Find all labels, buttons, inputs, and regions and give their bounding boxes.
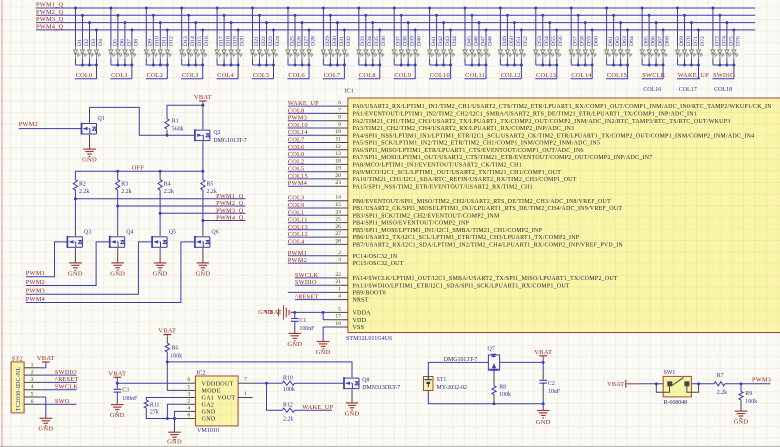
svg-text:R11: R11 xyxy=(150,402,160,408)
svg-text:PWM3: PWM3 xyxy=(288,115,307,122)
svg-text:MODE: MODE xyxy=(202,389,221,395)
svg-text:PA13/SWDIO/LPTIM1_ETR/I2C1_SDA: PA13/SWDIO/LPTIM1_ETR/I2C1_SDA/SPI1_SCK/… xyxy=(353,283,570,289)
svg-text:PA8/MCO/LPTIM1_IN1/EVENTOUT/US: PA8/MCO/LPTIM1_IN1/EVENTOUT/USART2_CK/TI… xyxy=(353,163,522,169)
svg-text:12: 12 xyxy=(335,144,341,150)
svg-text:R9: R9 xyxy=(745,391,752,397)
svg-text:R2: R2 xyxy=(79,182,86,188)
svg-text:D52: D52 xyxy=(523,36,529,46)
svg-text:GND: GND xyxy=(287,341,302,348)
svg-text:3: 3 xyxy=(31,377,34,383)
svg-text:D40: D40 xyxy=(417,36,423,46)
svg-text:9: 9 xyxy=(338,122,341,128)
svg-text:VOUT: VOUT xyxy=(217,396,235,402)
svg-text:4: 4 xyxy=(338,294,341,300)
svg-text:17: 17 xyxy=(335,314,341,320)
svg-text:14: 14 xyxy=(335,195,341,201)
svg-text:DOUT: DOUT xyxy=(216,381,234,387)
svg-text:Q7: Q7 xyxy=(488,346,495,352)
svg-text:D16: D16 xyxy=(204,36,210,46)
svg-text:R7: R7 xyxy=(717,373,724,379)
svg-text:PB6/USART2_TX/I2C1_SCL/LPTIM1_: PB6/USART2_TX/I2C1_SCL/LPTIM1_ETR/TIM2_C… xyxy=(353,235,580,241)
svg-text:2.2k: 2.2k xyxy=(283,417,293,423)
svg-text:COL5: COL5 xyxy=(288,166,305,173)
svg-text:1: 1 xyxy=(31,362,34,368)
svg-text:PWM1_Q: PWM1_Q xyxy=(36,2,64,9)
svg-text:1: 1 xyxy=(338,286,341,292)
svg-text:WAKE_UP: WAKE_UP xyxy=(288,100,319,107)
svg-text:SWDIO: SWDIO xyxy=(55,369,77,376)
svg-text:COL1: COL1 xyxy=(288,209,305,216)
svg-text:VDDA: VDDA xyxy=(353,311,372,317)
svg-text:24: 24 xyxy=(335,209,341,215)
svg-text:VBAT: VBAT xyxy=(194,94,212,101)
svg-text:COL13: COL13 xyxy=(536,72,556,79)
svg-text:PA15/SPI1_NSS/TIM2_ETR/EVENTOU: PA15/SPI1_NSS/TIM2_ETR/EVENTOUT/USART2_R… xyxy=(353,184,533,190)
svg-text:GND: GND xyxy=(38,426,53,433)
svg-text:VBAT: VBAT xyxy=(108,370,126,377)
svg-text:^RESET: ^RESET xyxy=(55,376,79,383)
svg-text:Q5: Q5 xyxy=(169,230,176,236)
svg-text:100nF: 100nF xyxy=(299,326,315,332)
svg-text:28: 28 xyxy=(335,238,341,244)
svg-text:PA10/TIM21_CH1/I2C1_SDA/RTC_RE: PA10/TIM21_CH1/I2C1_SDA/RTC_REFIN/USART2… xyxy=(353,177,577,183)
svg-text:6: 6 xyxy=(338,100,341,106)
svg-text:TC2030-IDC-NL: TC2030-IDC-NL xyxy=(16,367,22,412)
svg-text:PA2/TIM21_CH1/TIM2_CH3/USART2_: PA2/TIM21_CH1/TIM2_CH3/USART2_TX/LPUART1… xyxy=(353,119,731,125)
svg-text:COL8: COL8 xyxy=(359,72,376,79)
svg-text:PWM1: PWM1 xyxy=(26,270,45,277)
svg-text:10uF: 10uF xyxy=(548,389,561,395)
svg-text:1: 1 xyxy=(244,391,247,397)
svg-text:GA2: GA2 xyxy=(202,403,215,409)
svg-text:PA5/SPI1_SCK/LPTIM1_IN2/TIM2_E: PA5/SPI1_SCK/LPTIM1_IN2/TIM2_ETR/TIM2_CH… xyxy=(353,141,601,147)
svg-text:WAKE_UP: WAKE_UP xyxy=(678,72,709,79)
svg-text:4: 4 xyxy=(187,405,190,411)
svg-text:SWO: SWO xyxy=(55,398,70,405)
svg-text:26: 26 xyxy=(335,224,341,230)
svg-text:PWM4_Q: PWM4_Q xyxy=(36,24,64,31)
svg-text:PA9/MCO/I2C1_SCL/LPTIM1_OUT/US: PA9/MCO/I2C1_SCL/LPTIM1_OUT/USART2_TX/TI… xyxy=(353,170,562,176)
svg-text:R1: R1 xyxy=(172,119,179,125)
svg-text:PC14/OSC32_IN: PC14/OSC32_IN xyxy=(353,254,398,260)
svg-text:2.2k: 2.2k xyxy=(164,189,174,195)
svg-text:C3: C3 xyxy=(122,388,129,394)
svg-text:PB1/USART2_CK/SPI1_MOSI/LPTIM1: PB1/USART2_CK/SPI1_MOSI/LPTIM1_IN1/LPUAR… xyxy=(353,206,623,212)
svg-text:COL10: COL10 xyxy=(430,72,450,79)
svg-text:SW1: SW1 xyxy=(664,370,676,376)
svg-text:PB7/USART2_RX/I2C1_SDA/LPTIM1_: PB7/USART2_RX/I2C1_SDA/LPTIM1_IN2/TIM2_C… xyxy=(353,243,624,249)
svg-text:PB4/SPI1_MISO/EVENTOUT/COMP2_I: PB4/SPI1_MISO/EVENTOUT/COMP2_INP xyxy=(353,221,470,227)
svg-text:PWM1_Q: PWM1_Q xyxy=(216,193,244,200)
svg-text:ST1: ST1 xyxy=(437,377,447,383)
svg-text:D36: D36 xyxy=(381,36,387,46)
svg-text:2: 2 xyxy=(338,250,341,256)
svg-text:D48: D48 xyxy=(487,36,493,46)
svg-text:COL3: COL3 xyxy=(182,72,199,79)
svg-text:COL1: COL1 xyxy=(111,72,128,79)
svg-text:D50: D50 xyxy=(509,36,515,46)
svg-text:PWM2: PWM2 xyxy=(288,257,307,264)
svg-text:22: 22 xyxy=(335,272,341,278)
svg-text:2: 2 xyxy=(187,398,190,404)
svg-text:GND: GND xyxy=(82,157,97,164)
svg-text:D72: D72 xyxy=(700,36,706,46)
svg-text:PA0/USART2_RX/LPTIM1_IN1/TIM2_: PA0/USART2_RX/LPTIM1_IN1/TIM2_CH1/USART2… xyxy=(353,104,773,110)
svg-text:PA7/SPI1_MOSI/LPTIM1_OUT/USART: PA7/SPI1_MOSI/LPTIM1_OUT/USART2_CTS/TIM2… xyxy=(353,155,653,161)
svg-text:R5: R5 xyxy=(207,182,214,188)
svg-text:PB5/SPI1_MOSI/LPTIM1_IN1/I2C1_: PB5/SPI1_MOSI/LPTIM1_IN1/I2C1_SMBA/TIM21… xyxy=(353,228,543,234)
svg-text:GND: GND xyxy=(68,270,83,277)
svg-text:27: 27 xyxy=(335,231,341,237)
svg-text:GND: GND xyxy=(167,439,182,446)
svg-text:GND: GND xyxy=(153,270,168,277)
svg-text:PB0/EVENTOUT/SPI1_MISO/TIM2_CH: PB0/EVENTOUT/SPI1_MISO/TIM2_CH2/USART2_R… xyxy=(353,199,612,205)
svg-text:VM1010: VM1010 xyxy=(197,428,219,434)
svg-text:GND: GND xyxy=(195,270,210,277)
svg-text:DMN313DLT-7: DMN313DLT-7 xyxy=(362,385,400,391)
svg-text:SWCLK: SWCLK xyxy=(642,72,665,79)
svg-text:D57: D57 xyxy=(573,36,579,46)
svg-text:COL11: COL11 xyxy=(465,72,485,79)
svg-text:D32: D32 xyxy=(346,36,352,46)
svg-text:25: 25 xyxy=(335,217,341,223)
svg-text:7: 7 xyxy=(338,107,341,113)
svg-text:PWM3_Q: PWM3_Q xyxy=(36,16,64,23)
svg-text:COL4: COL4 xyxy=(288,238,305,245)
svg-text:COL5: COL5 xyxy=(253,72,270,79)
svg-text:VBAT: VBAT xyxy=(158,328,176,335)
svg-text:COL17: COL17 xyxy=(679,87,697,93)
svg-text:2.2k: 2.2k xyxy=(79,189,89,195)
svg-text:560k: 560k xyxy=(172,126,184,132)
svg-text:PA6/SPI1_MISO/LPTIM1_ETR/LPUAR: PA6/SPI1_MISO/LPTIM1_ETR/LPUART1_CTS/EVE… xyxy=(353,148,584,154)
svg-text:WAKE_UP: WAKE_UP xyxy=(302,404,333,411)
svg-text:Q8: Q8 xyxy=(362,378,369,384)
svg-text:VDD: VDD xyxy=(202,381,216,387)
svg-text:R3: R3 xyxy=(121,182,128,188)
svg-text:PA1/EVENTOUT/LPTIM1_IN2/TIM2_C: PA1/EVENTOUT/LPTIM1_IN2/TIM2_CH2/I2C1_SM… xyxy=(353,112,698,118)
svg-text:GND: GND xyxy=(734,418,749,425)
svg-text:COL8: COL8 xyxy=(288,107,305,114)
svg-text:PC15/OSC32_OUT: PC15/OSC32_OUT xyxy=(353,261,404,267)
svg-text:COL9: COL9 xyxy=(394,72,411,79)
svg-text:Q3: Q3 xyxy=(84,230,91,236)
svg-text:D76: D76 xyxy=(735,36,741,46)
svg-text:COL7: COL7 xyxy=(324,72,341,79)
svg-text:PWM3: PWM3 xyxy=(26,288,45,295)
svg-text:21: 21 xyxy=(335,279,341,285)
svg-text:2.2k: 2.2k xyxy=(121,189,131,195)
svg-text:Q2: Q2 xyxy=(213,130,220,136)
svg-text:D59: D59 xyxy=(587,36,593,46)
svg-text:COL10: COL10 xyxy=(288,122,308,129)
svg-text:C2: C2 xyxy=(548,381,555,387)
svg-text:COL13: COL13 xyxy=(288,224,308,231)
svg-text:PA14/SWCLK/LPTIM1_OUT/I2C1_SMB: PA14/SWCLK/LPTIM1_OUT/I2C1_SMBA/USART2_T… xyxy=(353,276,618,282)
svg-text:D74: D74 xyxy=(721,36,727,46)
svg-text:COL14: COL14 xyxy=(288,129,309,136)
svg-text:GND: GND xyxy=(345,410,360,417)
svg-text:100k: 100k xyxy=(745,399,757,405)
svg-text:3: 3 xyxy=(187,392,190,398)
svg-text:R12: R12 xyxy=(283,402,293,408)
svg-text:DMG1013T-7: DMG1013T-7 xyxy=(444,357,478,363)
svg-text:D28: D28 xyxy=(310,36,316,46)
svg-text:D60: D60 xyxy=(594,36,600,46)
svg-text:COL7: COL7 xyxy=(288,137,305,144)
svg-text:D51: D51 xyxy=(516,36,522,46)
svg-text:COL18: COL18 xyxy=(714,87,732,93)
svg-text:R10: R10 xyxy=(283,375,293,381)
svg-text:SWDIO: SWDIO xyxy=(713,72,735,79)
svg-text:PB9/BOOT0: PB9/BOOT0 xyxy=(353,291,386,297)
svg-text:20: 20 xyxy=(335,173,341,179)
svg-text:Q6: Q6 xyxy=(212,230,219,236)
svg-text:COL12: COL12 xyxy=(288,231,308,238)
svg-text:100nF: 100nF xyxy=(122,396,138,402)
svg-text:DMG1013T-7: DMG1013T-7 xyxy=(213,138,247,144)
svg-text:2: 2 xyxy=(31,370,34,376)
svg-text:PWM2_Q: PWM2_Q xyxy=(36,9,64,16)
svg-text:PWM4: PWM4 xyxy=(26,296,46,303)
svg-text:PWM2: PWM2 xyxy=(19,121,38,128)
svg-text:Q1: Q1 xyxy=(98,116,105,122)
svg-text:COL2: COL2 xyxy=(147,72,164,79)
svg-text:COL0: COL0 xyxy=(288,151,305,158)
svg-text:8: 8 xyxy=(187,413,190,419)
svg-text:D24: D24 xyxy=(275,36,281,46)
svg-text:VSS: VSS xyxy=(353,325,365,331)
svg-text:VBAT: VBAT xyxy=(37,355,55,362)
svg-text:GND: GND xyxy=(202,410,216,416)
svg-text:D68: D68 xyxy=(665,36,671,46)
svg-text:COL15: COL15 xyxy=(288,173,308,180)
svg-text:27k: 27k xyxy=(150,410,159,416)
svg-text:6: 6 xyxy=(31,399,34,405)
svg-text:VBAT: VBAT xyxy=(607,381,624,388)
svg-text:D64: D64 xyxy=(629,36,635,46)
svg-text:SWCLK: SWCLK xyxy=(55,383,78,390)
svg-text:D75: D75 xyxy=(728,36,734,46)
svg-text:COL12: COL12 xyxy=(501,72,521,79)
svg-text:VBAT: VBAT xyxy=(265,309,282,316)
svg-text:GA1: GA1 xyxy=(202,396,215,402)
svg-text:^RESET: ^RESET xyxy=(295,294,319,301)
svg-text:SWCLK: SWCLK xyxy=(295,272,318,279)
svg-text:GND: GND xyxy=(536,419,551,426)
svg-text:7: 7 xyxy=(244,377,247,383)
svg-text:Q4: Q4 xyxy=(126,230,133,236)
svg-text:PWM2_Q: PWM2_Q xyxy=(216,200,244,207)
svg-text:GND: GND xyxy=(110,412,125,419)
svg-text:5: 5 xyxy=(338,306,341,312)
svg-text:18: 18 xyxy=(335,158,341,164)
svg-text:4: 4 xyxy=(31,384,34,390)
svg-text:19: 19 xyxy=(335,166,341,172)
svg-text:5: 5 xyxy=(31,392,34,398)
svg-text:MY-2032-02: MY-2032-02 xyxy=(437,385,467,391)
svg-text:R4: R4 xyxy=(164,182,171,188)
svg-text:PWM4: PWM4 xyxy=(288,180,308,187)
svg-text:NRST: NRST xyxy=(353,298,369,304)
svg-text:5: 5 xyxy=(187,384,190,390)
svg-text:D58: D58 xyxy=(580,36,586,46)
svg-text:VBAT: VBAT xyxy=(534,349,552,356)
svg-text:3: 3 xyxy=(338,257,341,263)
svg-text:D8: D8 xyxy=(133,39,139,46)
svg-text:COL6: COL6 xyxy=(288,144,305,151)
svg-text:COL15: COL15 xyxy=(607,72,627,79)
svg-text:STM32L011G4U6: STM32L011G4U6 xyxy=(346,336,392,342)
svg-text:D73: D73 xyxy=(714,36,720,46)
svg-text:PWM2: PWM2 xyxy=(26,279,45,286)
svg-text:100k: 100k xyxy=(283,387,295,393)
svg-text:IC2: IC2 xyxy=(196,371,205,377)
svg-text:6: 6 xyxy=(187,377,190,383)
svg-text:COL14: COL14 xyxy=(571,72,592,79)
svg-text:D4: D4 xyxy=(98,39,104,46)
svg-text:OFF: OFF xyxy=(132,164,145,171)
svg-text:100k: 100k xyxy=(499,392,511,398)
svg-text:PA4/SPI1_NSS/LPTIM1_IN1/LPTIM1: PA4/SPI1_NSS/LPTIM1_IN1/LPTIM1_ETR/I2C1_… xyxy=(353,133,755,139)
svg-text:16: 16 xyxy=(335,321,341,327)
svg-text:GND: GND xyxy=(316,349,331,356)
svg-text:100k: 100k xyxy=(170,353,182,359)
svg-text:R-668048: R-668048 xyxy=(664,400,688,406)
svg-text:PWM3_Q: PWM3_Q xyxy=(216,207,244,214)
svg-text:COL11: COL11 xyxy=(288,217,308,224)
svg-text:D44: D44 xyxy=(452,36,458,46)
svg-text:COL9: COL9 xyxy=(288,202,305,209)
svg-text:GND: GND xyxy=(110,270,125,277)
svg-text:C1: C1 xyxy=(299,318,306,324)
svg-text:GND: GND xyxy=(202,417,216,423)
svg-text:10: 10 xyxy=(335,129,341,135)
svg-text:D20: D20 xyxy=(240,36,246,46)
svg-text:R8: R8 xyxy=(499,384,506,390)
svg-text:PB3/SPI1_SCK/TIM2_CH2/EVENTOUT: PB3/SPI1_SCK/TIM2_CH2/EVENTOUT/COMP2_INM xyxy=(353,213,500,219)
svg-text:2.2k: 2.2k xyxy=(717,390,727,396)
svg-text:SWDIO: SWDIO xyxy=(295,279,317,286)
svg-text:D56: D56 xyxy=(558,36,564,46)
svg-text:13: 13 xyxy=(335,151,341,157)
svg-text:COL2: COL2 xyxy=(288,158,305,165)
svg-text:8: 8 xyxy=(338,115,341,121)
svg-text:PWM4_Q: PWM4_Q xyxy=(216,215,244,222)
svg-text:PA3/TIM21_CH2/TIM2_CH4/USART2_: PA3/TIM21_CH2/TIM2_CH4/USART2_RX/LPUART1… xyxy=(353,126,575,132)
svg-text:PWM3: PWM3 xyxy=(752,376,771,383)
svg-text:15: 15 xyxy=(335,202,341,208)
svg-text:VDD: VDD xyxy=(353,318,367,324)
svg-text:D12: D12 xyxy=(169,36,175,46)
svg-text:COL4: COL4 xyxy=(217,72,234,79)
svg-text:IC1: IC1 xyxy=(345,89,354,95)
svg-text:R6: R6 xyxy=(172,346,179,352)
svg-text:2.2k: 2.2k xyxy=(207,189,217,195)
svg-text:COL0: COL0 xyxy=(76,72,93,79)
svg-text:ST2: ST2 xyxy=(12,355,23,362)
svg-text:PWM1: PWM1 xyxy=(288,250,307,257)
svg-text:11: 11 xyxy=(336,137,342,143)
svg-text:23: 23 xyxy=(335,180,341,186)
svg-text:COL16: COL16 xyxy=(643,87,661,93)
svg-text:COL6: COL6 xyxy=(288,72,305,79)
svg-text:COL3: COL3 xyxy=(288,195,305,202)
